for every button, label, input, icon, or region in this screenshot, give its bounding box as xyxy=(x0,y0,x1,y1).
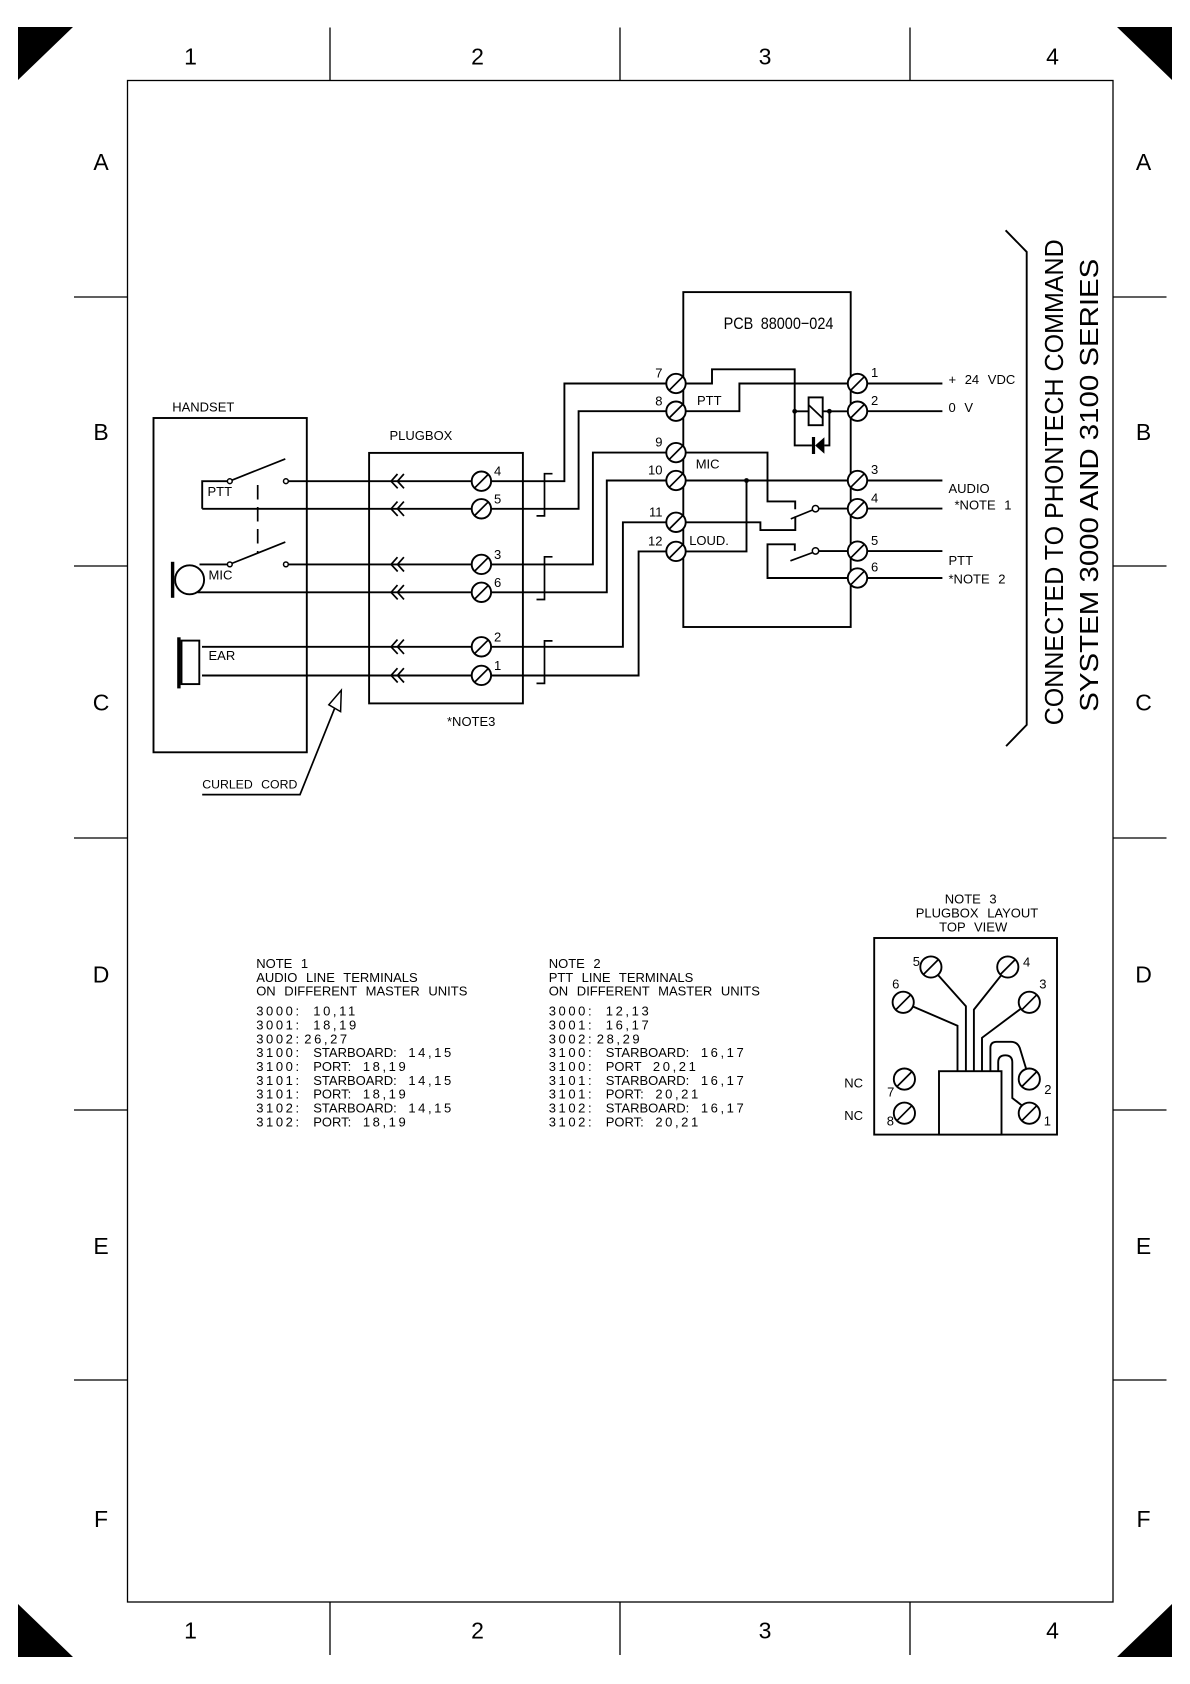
svg-text:E: E xyxy=(93,1233,108,1259)
svg-text:ON DIFFERENT MASTER UNITS: ON DIFFERENT MASTER UNITS xyxy=(256,984,468,999)
svg-text:EAR: EAR xyxy=(209,648,236,663)
svg-text:B: B xyxy=(93,419,108,445)
svg-text:+ 24 VDC: + 24 VDC xyxy=(949,372,1016,387)
svg-text:3101: STARBOARD: 16,17: 3101: STARBOARD: 16,17 xyxy=(549,1073,747,1088)
svg-text:HANDSET: HANDSET xyxy=(172,400,234,415)
junction node relay right xyxy=(827,409,832,414)
svg-text:MIC: MIC xyxy=(209,567,233,582)
svg-text:6: 6 xyxy=(871,560,878,575)
cable pair bracket rows 2-1 xyxy=(537,641,553,684)
terminal 8 xyxy=(655,393,685,421)
pin 3 xyxy=(1019,977,1047,1013)
switch S2 MIC xyxy=(227,542,288,567)
svg-text:E: E xyxy=(1136,1233,1151,1259)
svg-text:3102: PORT: 18,19: 3102: PORT: 18,19 xyxy=(256,1114,408,1129)
brace for system note xyxy=(1006,230,1027,746)
plugbox enclosure xyxy=(369,453,523,704)
svg-text:9: 9 xyxy=(655,435,662,450)
wire terminal 3 out xyxy=(867,480,943,482)
wire terminal 11 to audio switch arm xyxy=(685,516,795,530)
wire terminal 9 to audio switch contact xyxy=(685,453,795,510)
terminal 5 xyxy=(848,533,878,561)
svg-text:AUDIO LINE TERMINALS: AUDIO LINE TERMINALS xyxy=(256,970,418,985)
note 2 text block xyxy=(549,956,761,1129)
svg-text:3: 3 xyxy=(1039,977,1046,992)
wire PTT box to plugbox row 5 xyxy=(202,411,667,509)
plug chevron row 4 xyxy=(391,474,404,488)
svg-text:B: B xyxy=(1136,419,1151,445)
wire EAR to plugbox row 1 xyxy=(202,551,667,675)
svg-text:PLUGBOX LAYOUT: PLUGBOX LAYOUT xyxy=(916,905,1039,920)
pin 5 xyxy=(913,954,942,978)
svg-text:3101: PORT: 20,21: 3101: PORT: 20,21 xyxy=(549,1087,701,1102)
svg-text:F: F xyxy=(94,1506,108,1532)
terminal 12 xyxy=(648,534,686,562)
curled cord callout xyxy=(202,690,341,794)
svg-text:PTT: PTT xyxy=(208,484,233,499)
wire to pin 5 xyxy=(938,975,966,1071)
switch S1 PTT xyxy=(227,459,288,484)
plugbox terminal 1 xyxy=(472,658,502,685)
mechanical link dashed xyxy=(257,485,259,553)
pin 7 xyxy=(887,1069,915,1100)
wire terminal 8 to terminal 1 xyxy=(685,384,848,412)
svg-text:D: D xyxy=(1135,961,1152,987)
svg-text:3102: STARBOARD: 14,15: 3102: STARBOARD: 14,15 xyxy=(256,1101,454,1116)
svg-text:3000: 12,13: 3000: 12,13 xyxy=(549,1004,652,1019)
svg-text:5: 5 xyxy=(913,954,920,969)
terminal 11 xyxy=(649,504,686,532)
svg-text:3102: PORT: 20,21: 3102: PORT: 20,21 xyxy=(549,1114,701,1129)
wire terminal 10 to terminal 3 xyxy=(685,480,848,482)
svg-text:D: D xyxy=(93,961,110,987)
svg-text:*NOTE3: *NOTE3 xyxy=(447,714,495,729)
wire EAR to plugbox row 2 xyxy=(202,522,667,647)
plugbox terminal 6 xyxy=(472,575,502,602)
svg-text:NC: NC xyxy=(844,1076,863,1091)
svg-text:11: 11 xyxy=(649,504,663,519)
svg-text:1: 1 xyxy=(1044,1113,1051,1128)
wire terminal 6 out xyxy=(867,577,943,579)
svg-text:A: A xyxy=(93,149,109,175)
note 1 text block xyxy=(256,956,468,1129)
terminal 7 xyxy=(655,366,685,394)
svg-text:C: C xyxy=(1135,689,1152,715)
PCB enclosure xyxy=(683,292,850,627)
svg-text:PCB 88000−024: PCB 88000−024 xyxy=(724,315,834,333)
svg-text:1: 1 xyxy=(184,1617,197,1643)
wire terminal 2 out xyxy=(867,410,943,412)
svg-text:PTT: PTT xyxy=(949,553,974,568)
svg-text:4: 4 xyxy=(1023,955,1030,970)
svg-text:CURLED CORD: CURLED CORD xyxy=(202,778,297,792)
svg-text:3: 3 xyxy=(759,1617,772,1643)
svg-text:7: 7 xyxy=(655,366,662,381)
plug chevron row 6 xyxy=(391,585,404,599)
svg-text:4: 4 xyxy=(1046,1617,1059,1643)
svg-text:6: 6 xyxy=(892,977,899,992)
pin 8 xyxy=(887,1103,915,1129)
svg-text:SYSTEM 3000 AND 3100 SERIES: SYSTEM 3000 AND 3100 SERIES xyxy=(1074,259,1104,712)
earpiece EAR xyxy=(177,637,199,688)
terminal 2 xyxy=(848,393,878,421)
svg-text:5: 5 xyxy=(494,491,501,506)
svg-text:F: F xyxy=(1136,1506,1150,1532)
switch audio (to terminal 4) xyxy=(791,506,848,519)
wire MIC to plugbox row 6 xyxy=(198,481,667,593)
plugbox top view enclosure xyxy=(874,938,1057,1135)
svg-text:3001: 16,17: 3001: 16,17 xyxy=(549,1017,652,1032)
svg-text:1: 1 xyxy=(871,365,878,380)
svg-text:CONNECTED TO PHONTECH COMMAND: CONNECTED TO PHONTECH COMMAND xyxy=(1039,239,1069,725)
terminal 10 xyxy=(648,463,686,491)
svg-text:8: 8 xyxy=(887,1113,894,1128)
svg-text:3: 3 xyxy=(494,547,501,562)
terminal 6 xyxy=(848,560,878,588)
junction node audio common xyxy=(744,478,749,483)
svg-text:A: A xyxy=(1136,149,1152,175)
wire to pin 3 xyxy=(982,1009,1021,1071)
svg-text:1: 1 xyxy=(184,43,197,69)
handset enclosure xyxy=(154,418,307,752)
terminal 4 xyxy=(848,490,878,518)
wire terminal 7 to relay/diode node xyxy=(685,369,812,445)
svg-text:2: 2 xyxy=(1044,1082,1051,1097)
wire terminal 4 out xyxy=(867,508,943,510)
svg-text:6: 6 xyxy=(494,575,501,590)
plugbox terminal 3 xyxy=(472,547,502,574)
svg-text:3001: 18,19: 3001: 18,19 xyxy=(256,1017,359,1032)
wire to pin 4 xyxy=(974,975,1001,1071)
plugbox terminal 2 xyxy=(472,629,502,656)
svg-text:NOTE 3: NOTE 3 xyxy=(945,892,997,907)
svg-text:2: 2 xyxy=(471,1617,484,1643)
svg-text:PLUGBOX: PLUGBOX xyxy=(390,428,453,443)
cable pair bracket rows 4-5 xyxy=(537,474,553,516)
svg-text:3101: PORT: 18,19: 3101: PORT: 18,19 xyxy=(256,1087,408,1102)
svg-text:AUDIO: AUDIO xyxy=(949,481,990,496)
wire to pin 6 xyxy=(913,1007,958,1072)
wire terminal 12 to junction xyxy=(685,481,746,552)
svg-text:PTT: PTT xyxy=(697,393,722,408)
svg-text:*NOTE 1: *NOTE 1 xyxy=(955,498,1012,513)
terminal 1 xyxy=(848,365,878,393)
svg-text:3100: STARBOARD: 14,15: 3100: STARBOARD: 14,15 xyxy=(256,1045,454,1060)
switch ptt (to terminal 5) xyxy=(790,548,848,561)
svg-text:5: 5 xyxy=(871,533,878,548)
svg-text:ON DIFFERENT MASTER UNITS: ON DIFFERENT MASTER UNITS xyxy=(549,984,761,999)
svg-text:TOP VIEW: TOP VIEW xyxy=(939,919,1008,934)
svg-text:3000: 10,11: 3000: 10,11 xyxy=(256,1004,358,1019)
svg-text:C: C xyxy=(93,689,110,715)
pin 4 xyxy=(997,955,1030,978)
svg-text:3100: PORT: 18,19: 3100: PORT: 18,19 xyxy=(256,1059,408,1074)
junction node relay left xyxy=(792,409,797,414)
pin 2 xyxy=(1019,1069,1052,1097)
svg-text:MIC: MIC xyxy=(696,456,720,471)
svg-text:2: 2 xyxy=(494,629,501,644)
svg-text:3100: STARBOARD: 16,17: 3100: STARBOARD: 16,17 xyxy=(549,1045,747,1060)
terminal 3 xyxy=(848,462,878,490)
cable pair bracket rows 3-6 xyxy=(537,557,553,600)
wire terminal 1 out xyxy=(867,383,943,385)
wire to pin 1 xyxy=(998,1055,1022,1106)
plugbox terminal 5 xyxy=(472,491,502,518)
svg-text:3101: STARBOARD: 14,15: 3101: STARBOARD: 14,15 xyxy=(256,1073,454,1088)
microphone MIC xyxy=(171,562,204,598)
svg-text:2: 2 xyxy=(871,393,878,408)
svg-text:3100: PORT 20,21: 3100: PORT 20,21 xyxy=(549,1059,699,1074)
svg-text:3: 3 xyxy=(871,462,878,477)
wire terminal 5 out xyxy=(867,550,943,552)
svg-text:4: 4 xyxy=(494,464,501,479)
plug chevron row 5 xyxy=(391,502,404,516)
wire MIC switch to plugbox row 3 xyxy=(200,453,667,565)
plugbox terminal 4 xyxy=(472,464,502,491)
svg-text:NC: NC xyxy=(844,1108,863,1123)
svg-text:12: 12 xyxy=(648,534,662,549)
svg-text:3102: STARBOARD: 16,17: 3102: STARBOARD: 16,17 xyxy=(549,1101,747,1116)
svg-text:4: 4 xyxy=(1046,43,1059,69)
cable entry block xyxy=(939,1071,1002,1134)
svg-text:7: 7 xyxy=(887,1084,894,1099)
svg-text:8: 8 xyxy=(655,393,662,408)
svg-text:0 V: 0 V xyxy=(949,400,974,415)
pin 6 xyxy=(892,977,914,1013)
pin 1 xyxy=(1019,1103,1051,1129)
svg-text:2: 2 xyxy=(471,43,484,69)
svg-text:*NOTE 2: *NOTE 2 xyxy=(949,571,1006,586)
wire PTT switch to plugbox row 4 xyxy=(288,384,667,482)
relay K1 xyxy=(795,397,830,425)
svg-text:10: 10 xyxy=(648,463,662,478)
svg-text:3: 3 xyxy=(759,43,772,69)
diode D1 xyxy=(812,411,848,454)
svg-text:1: 1 xyxy=(494,658,501,673)
PTT label box xyxy=(202,481,227,509)
wire terminal 6 to ptt switch contact xyxy=(768,544,849,578)
plug chevron row 3 xyxy=(391,557,404,571)
plug chevron row 2 xyxy=(391,640,404,654)
svg-text:LOUD.: LOUD. xyxy=(689,533,729,548)
wire to pin 2 xyxy=(990,1042,1026,1071)
plug chevron row 1 xyxy=(391,668,404,682)
svg-text:4: 4 xyxy=(871,490,878,505)
terminal 9 xyxy=(655,435,685,463)
svg-text:PTT LINE TERMINALS: PTT LINE TERMINALS xyxy=(549,970,694,985)
